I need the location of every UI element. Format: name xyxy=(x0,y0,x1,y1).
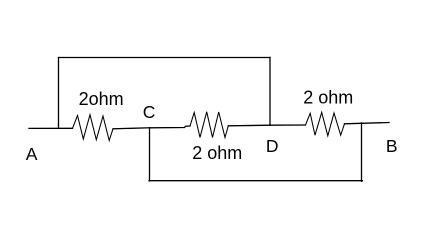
wire top-left vertical (A side riser) xyxy=(58,58,60,129)
resistor R3 xyxy=(306,112,345,135)
wire top-right vertical (D side riser) xyxy=(269,58,271,126)
svg-text:B: B xyxy=(386,136,398,156)
wire R2 to node D xyxy=(228,124,270,127)
wire node C to R2 xyxy=(150,126,191,128)
wire top horizontal xyxy=(59,57,271,59)
svg-text:2 ohm: 2 ohm xyxy=(303,88,353,108)
svg-text:2 ohm: 2 ohm xyxy=(192,143,242,163)
svg-text:A: A xyxy=(26,144,38,164)
wire R1 to node C xyxy=(113,128,150,129)
wire bottom horizontal xyxy=(149,180,363,182)
svg-text:D: D xyxy=(266,136,279,156)
svg-text:2ohm: 2ohm xyxy=(79,89,124,109)
wire node D to R3 xyxy=(270,124,306,126)
svg-text:C: C xyxy=(143,102,156,122)
wire R3 to B xyxy=(345,123,390,124)
resistor R1 xyxy=(73,115,114,141)
wire right vertical drop (B side) xyxy=(361,123,363,182)
resistor R2 xyxy=(190,112,228,138)
wire A to R1 xyxy=(29,127,73,129)
wire node C vertical drop xyxy=(149,128,151,181)
